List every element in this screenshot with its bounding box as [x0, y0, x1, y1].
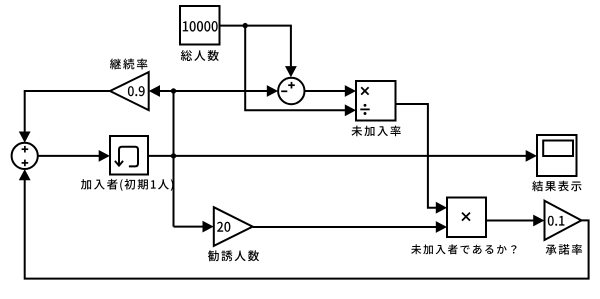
node: trunk junction at accumulator output wire [171, 153, 176, 158]
feedback wire from gain 0.1 output around bottom to left sum bottom input [19, 169, 589, 279]
gain block G1 value 0.9 (継続率), pointing left [110, 72, 149, 110]
wire from trunk corner right to gain 20 input [174, 221, 214, 233]
label 継続率 [110, 59, 147, 70]
wire from gain 0.9 output left then down into left sum top input [19, 91, 110, 143]
label 承諾率 [546, 244, 582, 255]
node: branch junction on constant output wire [243, 23, 248, 28]
label 未加入率 [352, 126, 401, 137]
sum block S2 (+ top, - left) computing 10000 minus subscribers [278, 78, 304, 104]
divide block D1 (×÷) computing 未加入率 [356, 81, 396, 121]
label 結果表示 [532, 181, 581, 192]
wire from trunk junction to sum minus input [174, 85, 279, 97]
constant block C1 value 10000 [180, 6, 220, 45]
label 加入者(初期1人) [81, 179, 173, 191]
product block P1 (×) 未加入者であるか？ [447, 198, 486, 238]
wire from trunk junction to gain 0.9 input [149, 85, 174, 97]
gain block G3 value 0.1 (承諾率), pointing right [545, 201, 582, 240]
vertical trunk wire carrying accumulator output [173, 91, 175, 227]
label 未加入者であるか？ [411, 244, 516, 254]
wire from accumulator output to scope input [148, 150, 537, 162]
label 勧誘人数 [208, 250, 259, 261]
wire from divider output right then down then right into product first input [396, 104, 448, 214]
wire from product output to gain 0.1 input [486, 215, 544, 227]
label 総人数 [181, 50, 219, 61]
wire from constant 10000 output right then down into sum plus input [220, 26, 297, 78]
node: trunk junction upper [171, 88, 176, 93]
accumulator block A1 (加入者, loop icon) [110, 136, 148, 175]
sum block S1 (+ top, + bottom) at far left [12, 143, 38, 169]
wire branch from junction down then right to divider denominator input [245, 26, 356, 117]
gain block G2 value 20 (勧誘人数), pointing right [214, 207, 253, 246]
wire from gain 20 output to product second input [253, 221, 447, 233]
wire from sum S2 output to divider numerator input [305, 85, 356, 97]
scope block SC1 結果表示 [537, 135, 577, 176]
wire from sum S1 output to accumulator input [38, 150, 110, 162]
